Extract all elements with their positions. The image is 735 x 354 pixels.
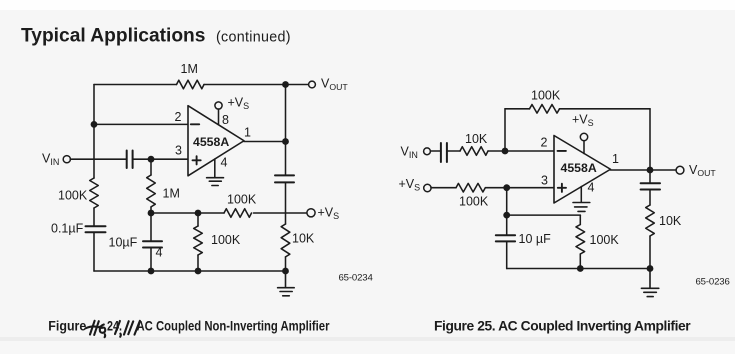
svg-text:10 µF: 10 µF	[519, 232, 552, 246]
wire: top feedback rail	[505, 108, 650, 110]
wire: VIN to coupling cap	[431, 150, 441, 152]
ground (pin 4)	[207, 178, 224, 186]
svg-text:4: 4	[156, 245, 163, 259]
node: junction bias node	[503, 184, 510, 191]
wire: op-amp output	[244, 141, 286, 143]
wire: right drop of feedback	[649, 109, 651, 170]
op-amp U 4558A (left)	[188, 106, 244, 176]
node: junction summing point	[502, 148, 509, 155]
resistor R 100K (ground leg)	[576, 225, 585, 254]
svg-text:2: 2	[175, 110, 182, 124]
capacitor C 10uF	[143, 241, 162, 247]
resistor R 100K (bias input)	[456, 183, 485, 192]
capacitor C 0.1uF	[86, 226, 106, 232]
capacitor C output branch	[275, 175, 294, 182]
wire: pin 8 supply	[218, 109, 220, 125]
resistor R 10K (right vertical)	[281, 224, 290, 257]
node: bottom rail / divider	[195, 268, 202, 275]
wire: top feedback rail	[94, 84, 309, 86]
node: bottom rail / right vertical	[282, 268, 289, 275]
ground (right circuit bottom)	[641, 269, 658, 297]
node: bottom rail / mid branch	[148, 268, 155, 275]
wire: output branch verticals	[649, 170, 651, 269]
wire: middle vertical branch	[150, 159, 152, 271]
svg-text:4558A: 4558A	[561, 161, 597, 175]
wire: bias node vertical	[506, 188, 508, 215]
resistor R 100K (left vertical)	[90, 178, 99, 208]
ground (pin 4 right)	[573, 203, 590, 212]
wire: 10K to inverting input (pin 2)	[488, 150, 554, 152]
resistor R 100K (feedback top)	[530, 105, 560, 114]
svg-text:65-0234: 65-0234	[339, 273, 374, 284]
node: junction output / right vertical	[282, 138, 289, 145]
op-amp U 4558A (right)	[554, 136, 611, 204]
svg-text:65-0236: 65-0236	[696, 277, 730, 288]
wire: left drop of feedback	[504, 109, 506, 151]
top white strip	[0, 0, 735, 10]
svg-text:4: 4	[588, 181, 595, 195]
resistor R 10K (input)	[460, 147, 488, 156]
svg-text:10K: 10K	[465, 132, 488, 146]
wire: pin 8 supply (right)	[583, 141, 585, 154]
svg-text:10K: 10K	[292, 232, 315, 246]
svg-text:1M: 1M	[181, 62, 198, 76]
svg-text:8: 8	[222, 113, 229, 127]
resistor R 1M (middle vertical)	[147, 175, 156, 207]
capacitor C input coupling (right)	[441, 143, 447, 162]
terminal VOUT	[309, 81, 316, 88]
svg-text:10µF: 10µF	[109, 236, 138, 250]
svg-text:3: 3	[175, 144, 182, 158]
wire: cap to 10K	[447, 150, 460, 152]
op-amp minus sign (right)	[558, 150, 566, 152]
capacitor C output (right)	[641, 183, 660, 189]
node: junction pin2/feedback	[91, 121, 98, 128]
capacitor C 10uF (right)	[496, 235, 515, 241]
terminal VIN	[63, 156, 70, 163]
terminal VOUT (right)	[676, 166, 684, 174]
svg-text:100K: 100K	[211, 233, 241, 247]
svg-text:0.1µF: 0.1µF	[51, 222, 84, 236]
terminal +VS input	[424, 184, 431, 191]
node: junction mid rail / 100K divider	[195, 210, 202, 217]
svg-text:1M: 1M	[163, 187, 180, 201]
resistor R 100K (mid rail horizontal)	[224, 209, 252, 218]
node: bottom rail / output branch	[647, 265, 654, 272]
wire: right vertical (output/bypass)	[285, 85, 287, 272]
wire: op-amp output (right)	[611, 169, 677, 171]
faint rule under captions	[0, 337, 735, 341]
wire: inverting input (pin 2)	[94, 123, 188, 125]
wire: 100K divider vertical	[197, 213, 199, 271]
wire: pin 4	[214, 159, 216, 177]
svg-text:100K: 100K	[531, 89, 561, 103]
capacitor C input coupling	[127, 151, 133, 169]
wire: bottom rail (right circuit)	[507, 268, 650, 270]
wire: cap to non-inverting input (pin 3)	[133, 158, 188, 160]
resistor R 100K (divider vertical)	[194, 226, 203, 255]
handwritten scribble over caption	[86, 321, 140, 337]
node: junction input / bias branch	[148, 156, 155, 163]
svg-text:(continued): (continued)	[216, 30, 291, 46]
terminal +VS (mid rail)	[307, 209, 315, 217]
node: junction mid-branch / mid rail	[148, 210, 155, 217]
svg-text:100K: 100K	[227, 193, 257, 207]
op-amp minus sign	[191, 123, 199, 125]
ground (bottom right of left circuit)	[278, 271, 295, 296]
wire: pin 4 (right)	[580, 187, 582, 203]
op-amp plus sign (right)	[558, 184, 566, 192]
wire: input to coupling cap	[70, 158, 126, 160]
terminal +VS (right op-amp)	[580, 133, 587, 140]
svg-text:Figure 25. AC Coupled Invertin: Figure 25. AC Coupled Inverting Amplifie…	[434, 318, 691, 333]
svg-text:100K: 100K	[459, 195, 489, 209]
wire: 10uF branch vertical	[506, 215, 508, 268]
svg-text:100K: 100K	[58, 189, 88, 203]
svg-text:1: 1	[244, 126, 251, 140]
svg-text:10K: 10K	[659, 214, 682, 228]
svg-text:4: 4	[221, 156, 228, 170]
node: bottom rail / 100K leg	[577, 265, 584, 272]
wire: bottom rail	[94, 270, 286, 272]
wire: mid rail to +VS terminal	[151, 212, 307, 214]
node: junction bias lower	[503, 212, 510, 219]
svg-text:AC Coupled Non-Inverting Ampli: AC Coupled Non-Inverting Amplifier	[137, 318, 331, 333]
svg-text:2: 2	[541, 136, 548, 150]
resistor R 10K (output branch)	[646, 205, 655, 236]
svg-text:Figure: Figure	[48, 318, 86, 333]
svg-text:Typical Applications: Typical Applications	[21, 26, 205, 47]
wire: lower horizontal to 100K	[507, 214, 581, 216]
wire: 100K to non-inverting input (pin 3)	[486, 187, 555, 189]
svg-text:100K: 100K	[590, 233, 620, 247]
wire: left vertical feedback branch	[93, 85, 95, 272]
node: junction output	[647, 167, 654, 174]
resistor R 1M (feedback, top)	[177, 80, 205, 89]
terminal +VS (pin 8)	[215, 102, 222, 109]
terminal VIN (right circuit)	[424, 148, 431, 155]
wire: 100K ground-leg vertical	[579, 215, 581, 268]
svg-text:3: 3	[541, 173, 548, 187]
wire: +VS terminal to 100K	[431, 187, 456, 189]
node: junction top rail / output branch	[282, 81, 289, 88]
svg-text:4558A: 4558A	[193, 135, 229, 149]
op-amp plus sign	[193, 156, 201, 164]
svg-text:1: 1	[612, 152, 619, 166]
